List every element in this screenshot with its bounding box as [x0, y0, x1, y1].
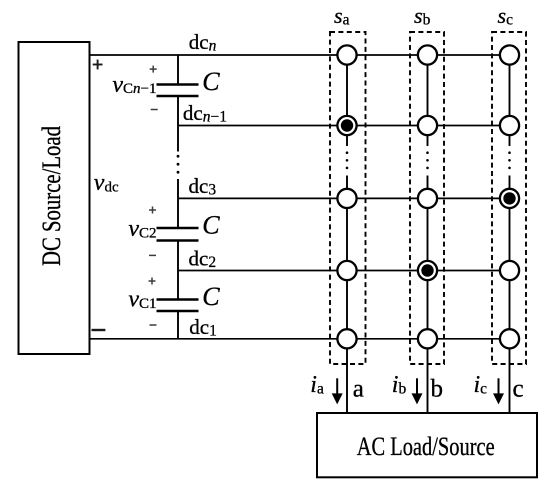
node dots capacitor branch [177, 155, 180, 174]
wire column a upper [346, 55, 348, 146]
plus sign cap3 [149, 278, 156, 285]
svg-text:c: c [513, 375, 524, 402]
capacitor C (middle) [157, 228, 199, 241]
wire column c upper [509, 55, 511, 146]
dashed leg box Sa [330, 32, 366, 364]
AC Load/Source box [317, 413, 537, 477]
switch Sa dc3 [337, 189, 356, 208]
switch Sc dc1 [500, 329, 519, 348]
wire cap1 bottom lead [177, 96, 179, 126]
wire dcn-1 [178, 125, 510, 127]
wire dc3 [178, 197, 510, 199]
wire dc2 [178, 270, 510, 272]
minus sign cap3 [150, 324, 157, 326]
switch Sa dcn-1 (on) [337, 116, 356, 135]
switch Sb dc1 [418, 329, 437, 348]
minus sign dc source [92, 329, 106, 331]
wire capacitor branch top segment [177, 55, 179, 84]
svg-text:DC Source/Load: DC Source/Load [37, 126, 66, 266]
svg-text:C: C [202, 282, 220, 311]
capacitor C (bottom) [157, 300, 199, 312]
wire dcn [90, 54, 510, 56]
switch Sc dc3 (on) [500, 189, 519, 208]
wire dc1 [90, 338, 510, 340]
switch Sb dc2 (on) [418, 261, 437, 280]
wire branch above dc3 [177, 179, 179, 198]
node dots column c [508, 151, 511, 169]
svg-text:a: a [353, 375, 364, 402]
switch Sb dcn-1 [418, 116, 437, 135]
DC Source/Load box [19, 42, 90, 354]
switch Sa dc1 [337, 329, 356, 348]
node dots column a [346, 151, 349, 169]
wire column a lower [346, 176, 348, 414]
plus sign dc source [93, 60, 103, 70]
switch Sc dcn-1 [500, 116, 519, 135]
current arrow ia [332, 378, 343, 404]
wire column b lower [427, 176, 429, 414]
wire dc3 to cap2 [177, 198, 179, 228]
wire cap3 bottom lead [177, 311, 179, 339]
switch Sa dc2 [337, 261, 356, 280]
wire column b upper [427, 55, 429, 146]
plus sign cap1 [150, 66, 157, 73]
switch Sc dc2 [500, 261, 519, 280]
switch Sb dcn [418, 45, 437, 64]
plus sign cap2 [149, 207, 156, 214]
switch Sb dc3 [418, 189, 437, 208]
minus sign cap1 [151, 109, 158, 111]
current arrow ib [412, 378, 423, 404]
svg-text:C: C [202, 67, 220, 96]
switch Sa dcn [337, 45, 356, 64]
node dots column b [426, 151, 429, 169]
svg-text:C: C [202, 211, 220, 240]
capacitor C (top) [157, 85, 199, 97]
dashed leg box Sc [492, 32, 526, 364]
wire branch below dcn-1 [177, 126, 179, 152]
wire column c lower [509, 176, 511, 414]
svg-text:AC Load/Source: AC Load/Source [357, 432, 495, 461]
minus sign cap2 [149, 254, 156, 256]
switch Sc dcn [500, 45, 519, 64]
wire cap2 bottom lead [177, 241, 179, 271]
current arrow ic [493, 378, 504, 404]
svg-text:b: b [431, 375, 444, 402]
dashed leg box Sb [410, 32, 444, 364]
wire dc2 to cap3 [177, 271, 179, 300]
